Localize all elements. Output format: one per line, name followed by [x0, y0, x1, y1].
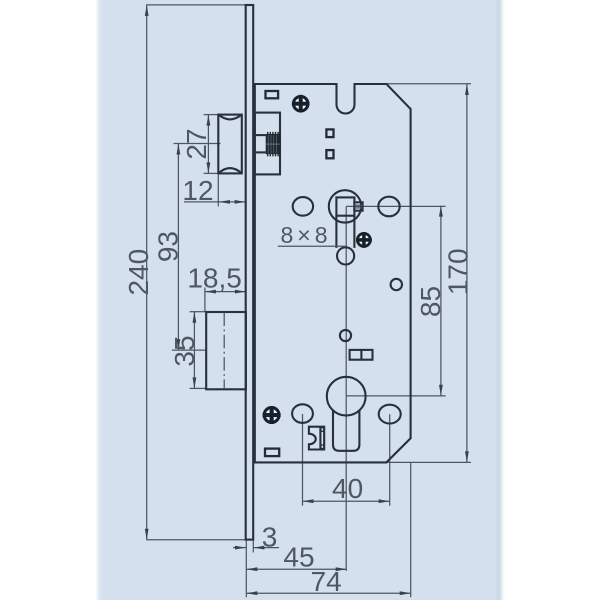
- svg-text:12: 12: [182, 175, 213, 206]
- euro cylinder hole: [327, 377, 366, 416]
- svg-text:74: 74: [311, 566, 342, 597]
- deadbolt: [206, 312, 246, 389]
- svg-text:240: 240: [123, 249, 154, 296]
- latch spring thread: [266, 132, 281, 156]
- screw bottom left: [263, 406, 281, 424]
- svg-text:85: 85: [415, 286, 446, 317]
- dimension line 3: [233, 547, 246, 549]
- small square hole upper: [326, 129, 333, 137]
- oval hole bottom right: [379, 405, 401, 424]
- dimension line 18,5: [204, 288, 206, 312]
- label 170: [443, 248, 474, 295]
- small circle center: [340, 330, 351, 341]
- bracket cam piece: [309, 427, 324, 450]
- oval hole top right: [378, 197, 399, 217]
- follower circle: [329, 190, 361, 222]
- svg-text:8×8: 8×8: [281, 222, 332, 248]
- follower slot end circle: [337, 247, 354, 264]
- latch bolt head: [218, 115, 242, 174]
- label 240: [123, 249, 154, 296]
- extension line bottom (240): [146, 539, 250, 541]
- dimension line 170: [466, 84, 468, 462]
- svg-text:40: 40: [332, 473, 363, 504]
- follower square 8x8: [336, 197, 354, 215]
- extension line case top (170): [387, 83, 471, 85]
- label 35: [169, 335, 200, 366]
- deadbolt centerline: [223, 313, 225, 389]
- oval hole top left: [293, 197, 313, 216]
- extension line top (240): [146, 4, 250, 6]
- oval hole bottom left: [292, 404, 313, 423]
- dimension line 85: [440, 206, 442, 396]
- extension line faceplate right (3): [252, 540, 254, 552]
- dimension line 93: [174, 143, 221, 145]
- dimension line 35: [190, 311, 206, 313]
- centerline cylinder horizontal: [346, 395, 445, 397]
- small rect hole top: [266, 91, 279, 98]
- extension line case bottom (170): [386, 461, 471, 463]
- svg-text:3: 3: [262, 521, 278, 552]
- small rect hole bottom: [265, 449, 279, 457]
- dimension line 12: [217, 175, 219, 207]
- latch housing box: [255, 113, 280, 175]
- svg-text:35: 35: [169, 335, 200, 366]
- lock case outline: [255, 84, 411, 462]
- svg-text:27: 27: [181, 128, 212, 159]
- extension lines 40: [302, 414, 304, 506]
- label 27: [181, 128, 212, 159]
- label 85: [415, 286, 446, 317]
- extension line faceplate left: [245, 540, 247, 597]
- centerline follower horizontal: [346, 205, 445, 207]
- dimension line 240: [146, 5, 148, 540]
- dimension line 40: [303, 500, 390, 502]
- dimension line 45: [246, 568, 346, 570]
- dimension line 27: [204, 114, 218, 116]
- centerline vertical: [345, 207, 347, 572]
- small circle right: [391, 279, 402, 290]
- screw top: [292, 95, 310, 113]
- svg-text:170: 170: [443, 248, 474, 295]
- svg-text:18,5: 18,5: [187, 263, 242, 294]
- latch tail: [252, 134, 265, 136]
- dimension line 74: [246, 592, 410, 594]
- screw middle: [356, 232, 372, 248]
- label 93: [152, 231, 183, 262]
- follower slot: [335, 216, 337, 248]
- svg-text:93: 93: [152, 231, 183, 262]
- small square hole lower: [326, 150, 333, 158]
- faceplate: [246, 5, 254, 540]
- follower side tab: [354, 202, 362, 210]
- double rect slot: [350, 350, 373, 360]
- extension line 74 right: [410, 463, 412, 597]
